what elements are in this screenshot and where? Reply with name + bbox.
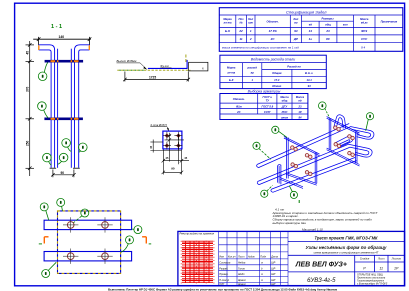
svg-text:ед: ед bbox=[298, 99, 302, 103]
iso mesh 2 bottom chord bbox=[327, 148, 360, 166]
iso hairpin top bbox=[334, 115, 346, 129]
iso joints (red circle pairs) bbox=[291, 126, 355, 176]
TITLE BLOCK bbox=[178, 231, 405, 285]
svg-text:94: 94 bbox=[308, 84, 311, 88]
holes detail: 4 bar cross-sections bbox=[165, 133, 181, 148]
svg-text:23: 23 bbox=[298, 104, 302, 108]
callout 4 bbox=[58, 153, 68, 164]
svg-text:ед,кг: ед,кг bbox=[361, 21, 368, 25]
svg-text:ГОСТ и: ГОСТ и bbox=[263, 95, 273, 99]
svg-text:Стадия: Стадия bbox=[360, 258, 370, 261]
iso mesh 2 right bars bbox=[355, 132, 357, 164]
mesh band 1 bbox=[45, 60, 84, 63]
revision table lines bbox=[219, 231, 288, 285]
svg-text:17 Рд: 17 Рд bbox=[269, 29, 277, 33]
svg-text:общ: общ bbox=[282, 99, 288, 103]
svg-text:Марка: Марка bbox=[227, 66, 236, 70]
svg-text:Марка: Марка bbox=[223, 17, 232, 21]
svg-text:ШР: ШР bbox=[271, 261, 275, 264]
svg-text:Масса: Масса bbox=[280, 95, 289, 99]
svg-text:общ: общ bbox=[325, 23, 331, 27]
svg-text:эл-та: эл-та bbox=[224, 22, 232, 25]
plan view: dashed axis rectangle bbox=[58, 211, 121, 274]
bar detail: bar top line bbox=[148, 67, 187, 69]
svg-text:СУ2Г: СУ2Г bbox=[264, 110, 271, 114]
top dimension line bbox=[33, 37, 91, 45]
iso callout f (from table) bbox=[319, 102, 330, 118]
svg-text:Спецификация Задел: Спецификация Задел bbox=[286, 9, 327, 14]
svg-text:1Р: 1Р bbox=[394, 266, 399, 270]
svg-text:Масса: Масса bbox=[296, 95, 305, 99]
iso mesh 1 right bars bbox=[315, 152, 317, 183]
iso hairpin mid bbox=[334, 136, 353, 148]
svg-text:ДГУ: ДГУ bbox=[281, 104, 288, 108]
svg-text:Разраб.: Разраб. bbox=[219, 267, 228, 270]
svg-text:Небов: Небов bbox=[238, 261, 246, 264]
plan view: top plate bbox=[44, 220, 132, 229]
svg-text:Выполнена: Плоттер HP DJ 450C: Выполнена: Плоттер HP DJ 450C Формат А3 … bbox=[108, 287, 337, 291]
svg-text:Размеры: Размеры bbox=[321, 17, 334, 21]
svg-text:ФУЗ: ФУЗ bbox=[361, 29, 367, 33]
iso fork hook 2 bbox=[348, 144, 372, 157]
svg-text:расход: расход bbox=[247, 66, 258, 70]
iso mesh 1 bottom chord bbox=[280, 173, 317, 189]
svg-text:ГОСТ 5.9: ГОСТ 5.9 bbox=[261, 104, 273, 108]
svg-text:Общая: Общая bbox=[272, 71, 282, 75]
svg-text:2: 2 bbox=[249, 37, 252, 41]
holes detail: lower dimensions bbox=[162, 150, 189, 175]
svg-text:94: 94 bbox=[299, 115, 302, 119]
svg-text:Обознач.: Обознач. bbox=[233, 97, 245, 101]
svg-text:1725: 1725 bbox=[149, 75, 156, 79]
callout 8 band2 bbox=[38, 102, 49, 118]
svg-text:9.4: 9.4 bbox=[361, 46, 366, 50]
svg-text:90: 90 bbox=[171, 167, 175, 171]
svg-text:17.4: 17.4 bbox=[274, 78, 280, 82]
plan callout 1 bbox=[42, 262, 57, 277]
svg-text:Изм: Изм bbox=[219, 255, 224, 258]
svg-text:94: 94 bbox=[294, 29, 298, 33]
notes text block bbox=[272, 207, 379, 231]
rebar bar pos.1 right (bent) bbox=[75, 45, 90, 168]
svg-text:ТУ: ТУ bbox=[266, 99, 270, 103]
svg-text:Обознач.: Обознач. bbox=[267, 20, 279, 24]
bottom width dimension bbox=[51, 170, 75, 178]
iso rod 3 bbox=[271, 157, 357, 192]
iso hairpin at mesh1 bbox=[277, 165, 281, 185]
svg-text:2С: 2С bbox=[270, 37, 276, 41]
plan view: bottom plate bbox=[44, 252, 132, 261]
plan callout 2 with dash-dot leader bbox=[74, 209, 89, 223]
svg-text:т: т bbox=[261, 261, 263, 264]
left dimension chain bbox=[26, 41, 35, 176]
revision table texts bbox=[219, 255, 278, 286]
bar bottom ticks bbox=[50, 167, 57, 169]
svg-text:Примечание: Примечание bbox=[381, 20, 398, 24]
holes detail: left extension lines bbox=[150, 140, 181, 153]
svg-text:Узлы несъёмных форм по образцу: Узлы несъёмных форм по образцу bbox=[306, 244, 387, 250]
plan callout 6 bbox=[57, 198, 65, 211]
bar detail: end plate rect bbox=[189, 62, 208, 71]
section mark right (orange) bbox=[142, 237, 146, 244]
SPEC TABLE top right bbox=[219, 8, 402, 52]
iso callout b bbox=[253, 142, 271, 159]
svg-text:масса элемента по спецификации: масса элемента по спецификации составляе… bbox=[222, 46, 299, 50]
svg-text:Провер.: Провер. bbox=[219, 273, 229, 276]
iso mesh 2 top chord bbox=[327, 117, 360, 135]
plan view: bar positions (4 circles with crosshairs) bbox=[67, 222, 108, 260]
mesh band 2 bbox=[44, 118, 83, 121]
svg-text:эл-та: эл-та bbox=[227, 72, 235, 75]
svg-text:Кол: Кол bbox=[248, 17, 253, 21]
iso callout e bbox=[366, 113, 374, 131]
iso mesh 1 top chord bbox=[284, 136, 320, 155]
svg-text:Шабл: Шабл bbox=[238, 273, 245, 276]
callout 8 band1 bbox=[38, 62, 47, 80]
ISOMETRIC VIEW bbox=[257, 115, 374, 193]
svg-text:во: во bbox=[294, 22, 298, 25]
svg-text:23: 23 bbox=[325, 29, 330, 33]
rebar bar pos.1 left (bent) bbox=[39, 45, 55, 168]
svg-text:Щавол: Щавол bbox=[238, 283, 246, 286]
svg-text:ШР: ШР bbox=[271, 279, 275, 282]
svg-text:т: т bbox=[261, 279, 263, 282]
svg-text:Ф1м: Ф1м bbox=[236, 104, 242, 108]
svg-text:2С: 2С bbox=[236, 110, 240, 114]
iso fork hook 1 bbox=[350, 127, 374, 140]
svg-text:Кол: Кол bbox=[293, 17, 298, 21]
plan callout 7 bbox=[132, 226, 142, 234]
iso callout a bbox=[272, 126, 287, 137]
bar detail: bar bend vertical bbox=[186, 60, 188, 69]
svg-text:Лист: Лист bbox=[377, 258, 384, 261]
bar end tick orange left bbox=[38, 45, 40, 50]
svg-text:Лист: Лист bbox=[237, 255, 244, 258]
stage mini table bbox=[360, 258, 402, 261]
svg-text:370: 370 bbox=[26, 86, 30, 92]
svg-text:Н.контр: Н.контр bbox=[219, 279, 230, 282]
svg-text:Вылет Ø18мм: Вылет Ø18мм bbox=[117, 59, 137, 63]
svg-text:ар: ар bbox=[251, 72, 254, 75]
svg-text:ед: ед bbox=[309, 23, 313, 27]
iso callout c bbox=[261, 185, 273, 197]
svg-text:РОС: РОС bbox=[282, 110, 288, 114]
svg-text:Согласов: Согласов bbox=[219, 261, 231, 264]
svg-text:140: 140 bbox=[59, 35, 65, 39]
svg-text:схема армирования и спецификац: схема армирования и спецификация элемент… bbox=[314, 251, 379, 255]
svg-text:Листов: Листов bbox=[391, 258, 402, 261]
svg-text:Масса: Масса bbox=[360, 17, 369, 21]
svg-text:Трест проект ГМК, МГОЗ-ГМК: Трест проект ГМК, МГОЗ-ГМК bbox=[314, 235, 378, 240]
svg-text:11: 11 bbox=[379, 266, 383, 270]
svg-text:Б-К: Б-К bbox=[229, 78, 234, 82]
svg-text:Подп: Подп bbox=[260, 255, 267, 258]
holes detail: internal dims bbox=[165, 133, 184, 165]
callout 1 bbox=[43, 153, 52, 165]
svg-text:250: 250 bbox=[26, 140, 30, 146]
svg-text:4 отв Ø18,5: 4 отв Ø18,5 bbox=[150, 123, 167, 127]
svg-text:90: 90 bbox=[61, 171, 65, 175]
svg-text:1Р: 1Р bbox=[298, 110, 301, 114]
svg-text:11: 11 bbox=[239, 37, 242, 41]
svg-text:Расход по: Расход по bbox=[287, 65, 301, 69]
svg-text:22: 22 bbox=[238, 29, 243, 33]
organization cell bbox=[357, 273, 388, 285]
svg-text:Ведомость расхода стали: Ведомость расхода стали bbox=[251, 58, 296, 62]
svg-text:Поз: Поз bbox=[239, 17, 245, 21]
svg-text:45: 45 bbox=[26, 51, 30, 55]
iso rod 1 bbox=[257, 124, 351, 168]
far side straight bars bbox=[57, 49, 59, 168]
bar end tick orange right bbox=[88, 45, 90, 50]
bar detail: dashed vertical axis bbox=[185, 55, 187, 63]
svg-text:В т.ч.: В т.ч. bbox=[305, 71, 313, 75]
svg-text:ГИП: ГИП bbox=[219, 283, 224, 286]
title block right part lines bbox=[288, 242, 405, 286]
svg-text:выборки арматуры дан: выборки арматуры дан bbox=[273, 221, 307, 225]
svg-text:СУС: СУС bbox=[361, 37, 368, 41]
plan callout 9 bbox=[121, 236, 134, 252]
svg-text:ШР: ШР bbox=[271, 283, 275, 286]
svg-text:14.1: 14.1 bbox=[306, 78, 312, 82]
svg-text:ДР: ДР bbox=[293, 37, 298, 41]
svg-text:шт: шт bbox=[248, 22, 253, 25]
callout 2 bbox=[62, 139, 72, 152]
iso mesh 2 left bars bbox=[329, 118, 331, 150]
iso mesh 1 left bars bbox=[287, 138, 289, 179]
svg-text:№док: №док bbox=[248, 255, 255, 258]
svg-text:1г: 1г bbox=[309, 37, 313, 41]
svg-text:ЛЕВ ВЕЛ ФУЗ+: ЛЕВ ВЕЛ ФУЗ+ bbox=[295, 262, 347, 269]
svg-text:Фу-1м: Фу-1м bbox=[160, 64, 168, 68]
svg-text:14: 14 bbox=[309, 29, 313, 33]
svg-text:Дата: Дата bbox=[270, 255, 278, 258]
iso callout d bbox=[289, 186, 297, 199]
svg-text:Щавол: Щавол bbox=[238, 279, 246, 282]
section mark left (orange) bbox=[44, 237, 48, 244]
svg-text:т: т bbox=[261, 273, 263, 276]
holes detail: blue square bbox=[163, 131, 182, 149]
svg-text:ШР: ШР bbox=[271, 273, 275, 276]
bar detail: centerline olive dashed bbox=[117, 69, 190, 71]
svg-text:Голов: Голов bbox=[238, 267, 245, 270]
svg-text:Кол.уч: Кол.уч bbox=[228, 255, 236, 258]
svg-text:кол: кол bbox=[343, 24, 348, 27]
plan callout 5 bbox=[40, 203, 49, 220]
callout 3 bbox=[79, 143, 88, 152]
svg-text:ШР: ШР bbox=[271, 267, 275, 270]
svg-text:г.Екатеринбург М-ГП-ФУЗ: г.Екатеринбург М-ГП-ФУЗ bbox=[357, 282, 388, 285]
STEEL TABLE middle right bbox=[220, 55, 326, 88]
svg-text:итог: итог bbox=[281, 116, 289, 119]
green tick near notes bbox=[298, 200, 300, 203]
svg-text:Реестр выдачи на хранение: Реестр выдачи на хранение bbox=[180, 232, 215, 236]
svg-text:6УВЗ-4г-5: 6УВЗ-4г-5 bbox=[307, 278, 336, 284]
red registry block bbox=[181, 241, 214, 284]
svg-text:Итого: Итого bbox=[272, 84, 281, 88]
svg-text:1 - 1: 1 - 1 bbox=[51, 24, 62, 30]
iso rod 2 bbox=[257, 144, 349, 184]
bar detail: length dimension bbox=[123, 72, 190, 82]
